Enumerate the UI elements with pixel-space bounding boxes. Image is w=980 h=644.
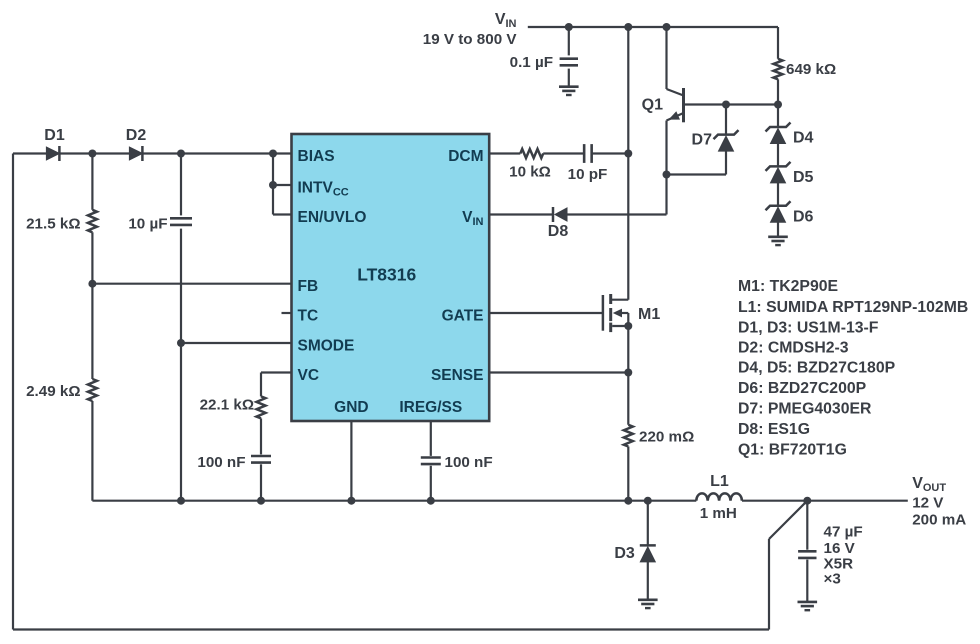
svg-text:Q1: BF720T1G: Q1: BF720T1G xyxy=(738,442,847,459)
svg-text:649 kΩ: 649 kΩ xyxy=(786,61,836,78)
resistor 649k xyxy=(774,59,783,80)
wire: 0.1uF to ground xyxy=(568,69,570,87)
svg-text:SENSE: SENSE xyxy=(431,367,484,384)
wire: D5-D6 link xyxy=(777,183,779,206)
svg-text:12 V: 12 V xyxy=(912,495,944,512)
junction: D2/10uF node xyxy=(177,150,185,158)
svg-text:0.1 µF: 0.1 µF xyxy=(510,54,553,71)
transistor Q1 xyxy=(667,27,684,215)
junction: top rail drain tap xyxy=(624,23,632,31)
junction: top rail Q1 collector tap xyxy=(663,23,671,31)
wire: D2 to BIAS pin xyxy=(142,152,291,154)
wire: D1 to node A xyxy=(59,152,92,154)
svg-text:D6: BZD27C200P: D6: BZD27C200P xyxy=(738,380,866,397)
junction: emitter/D7 node xyxy=(663,171,671,179)
svg-text:D5: D5 xyxy=(793,169,814,186)
wire: TC stub xyxy=(282,312,292,314)
svg-text:VC: VC xyxy=(298,367,320,384)
wire: drain vertical xyxy=(627,27,629,300)
svg-text:×3: ×3 xyxy=(824,571,841,588)
wire: return vertical to diagonal xyxy=(768,539,770,630)
svg-text:10 pF: 10 pF xyxy=(568,166,608,183)
junction: 10pF/drain node xyxy=(624,150,632,158)
svg-text:GATE: GATE xyxy=(442,307,484,324)
wire: VIN pin to D8 xyxy=(489,213,553,215)
svg-text:L1: SUMIDA RPT129NP-102MB: L1: SUMIDA RPT129NP-102MB xyxy=(738,299,968,316)
label VOUT xyxy=(912,475,966,529)
wire: D3 drop xyxy=(647,501,649,546)
wire: D4-D5 link xyxy=(777,144,779,167)
resistor 21.5k xyxy=(88,210,97,233)
wire: VC down to 22.1k xyxy=(260,373,262,397)
wire: DCM pin to 10k xyxy=(489,152,520,154)
resistor 10k xyxy=(520,149,543,158)
junction: 10uF column at ground line xyxy=(177,497,185,505)
svg-text:M1: TK2P90E: M1: TK2P90E xyxy=(738,278,838,295)
svg-text:2.49 kΩ: 2.49 kΩ xyxy=(26,383,80,400)
svg-text:16 V: 16 V xyxy=(824,540,856,557)
resistor 2.49k xyxy=(88,379,97,401)
svg-text:D8: ES1G: D8: ES1G xyxy=(738,421,810,438)
wire: VC pin wire xyxy=(261,371,292,373)
svg-text:100 nF: 100 nF xyxy=(445,454,493,471)
wire: 0.1uF drop xyxy=(568,27,570,55)
wire: return diagonal to output node xyxy=(769,501,807,539)
svg-text:BIAS: BIAS xyxy=(298,148,335,165)
wire: IREG cap to ground line xyxy=(430,466,432,501)
wire: 10pF to drain line xyxy=(592,152,629,154)
capacitor 0.1uF xyxy=(560,59,578,66)
diode D2 xyxy=(129,146,142,161)
junction: SENSE tap on source xyxy=(624,369,632,377)
wire: 21.5k bottom to FB node xyxy=(91,232,93,283)
svg-text:EN/UVLO: EN/UVLO xyxy=(298,209,367,226)
wire: GATE pin wire xyxy=(489,312,603,314)
junction: IREG column at ground line xyxy=(427,497,435,505)
wire: GND pin drop xyxy=(350,421,352,501)
ground D4-D6 chain xyxy=(768,237,788,245)
svg-text:GND: GND xyxy=(334,399,368,416)
wire: 10uF column bottom through SMODE to ground line xyxy=(180,229,182,501)
wire: 649k drop from top rail xyxy=(777,27,779,59)
svg-text:19 V to 800 V: 19 V to 800 V xyxy=(423,31,518,48)
wire: 47uF drop xyxy=(806,501,808,550)
svg-text:1 mH: 1 mH xyxy=(700,505,737,522)
svg-text:FB: FB xyxy=(298,278,319,295)
zener D4 xyxy=(766,123,791,144)
svg-text:D4, D5: BZD27C180P: D4, D5: BZD27C180P xyxy=(738,360,895,377)
zener D6 xyxy=(766,201,791,222)
wire: top V_IN rail xyxy=(528,26,778,28)
parts list xyxy=(738,278,968,459)
junction: D7 tap on base wire xyxy=(722,101,730,109)
resistor 22.1k xyxy=(257,396,266,418)
wire: 22.1k to 100nF xyxy=(260,418,262,454)
wire: EN/UVLO pin stub xyxy=(273,213,292,215)
wire: D1 anode from left rail xyxy=(13,152,46,154)
ground 47uF xyxy=(798,602,818,610)
svg-text:D7: D7 xyxy=(692,132,713,149)
svg-text:D1, D3: US1M-13-F: D1, D3: US1M-13-F xyxy=(738,320,879,337)
svg-text:D8: D8 xyxy=(548,223,569,240)
svg-text:L1: L1 xyxy=(710,473,729,490)
capacitor 100nF vc xyxy=(251,456,271,463)
svg-text:D7: PMEG4030ER: D7: PMEG4030ER xyxy=(738,401,872,418)
svg-text:D2: CMDSH2-3: D2: CMDSH2-3 xyxy=(738,340,849,357)
label 47uF block xyxy=(824,524,863,588)
junction: FB node xyxy=(88,280,96,288)
wire: 649k to Q1 base node xyxy=(777,79,779,127)
wire: EN/UVLO connector vertical xyxy=(272,154,274,215)
junction: BIAS/EN-UVLO tap xyxy=(269,150,277,158)
MOSFET M1 xyxy=(603,294,632,332)
wire: IREG/SS pin drop xyxy=(430,421,432,456)
junction: D1/21.5k node xyxy=(88,150,96,158)
svg-text:220 mΩ: 220 mΩ xyxy=(639,429,694,446)
svg-text:Q1: Q1 xyxy=(642,97,663,114)
wire: Q1 base wire xyxy=(684,103,779,105)
ground D3 xyxy=(638,600,658,608)
label VIN supply xyxy=(423,11,518,48)
wire: D8 to Q1 emitter column xyxy=(568,213,667,215)
wire: bottom return line xyxy=(13,628,769,630)
wire: FB pin wire xyxy=(92,283,291,285)
junction: top rail 0.1uF tap xyxy=(565,23,573,31)
svg-text:47 µF: 47 µF xyxy=(824,524,863,541)
junction: INTVCC tap xyxy=(269,181,277,189)
wire: 10uF column top xyxy=(180,154,182,216)
svg-text:200 mA: 200 mA xyxy=(912,512,966,529)
wire: output line after L1 xyxy=(742,500,908,502)
wire: D7 return to emitter column xyxy=(667,173,727,175)
wire: node A to D2 xyxy=(92,152,129,154)
wire: main ground/output line xyxy=(92,500,696,502)
wire: 2.49k bottom to ground line xyxy=(91,401,93,501)
wire: SENSE pin wire xyxy=(489,371,628,373)
svg-text:TC: TC xyxy=(298,307,319,324)
svg-text:D6: D6 xyxy=(793,209,814,226)
wire: 220m to ground line xyxy=(627,447,629,501)
zener D5 xyxy=(766,162,791,183)
svg-text:IREG/SS: IREG/SS xyxy=(399,399,462,416)
wire: INTVCC pin stub xyxy=(273,184,292,186)
svg-text:D3: D3 xyxy=(614,545,635,562)
wire: D7 anode down xyxy=(725,151,727,174)
svg-text:100 nF: 100 nF xyxy=(197,454,245,471)
wire: left rail from D1 line down to bottom return xyxy=(12,154,14,630)
wire: 100nF to ground line xyxy=(260,464,262,500)
op-amp U1 LT8316 regulator IC xyxy=(292,134,490,421)
wire: SMODE pin wire xyxy=(181,342,292,344)
junction: source column at output line xyxy=(624,497,632,505)
wire: D7 drop xyxy=(725,105,727,135)
svg-text:DCM: DCM xyxy=(448,148,483,165)
junction: base/zener node xyxy=(774,101,782,109)
capacitor 47uF xyxy=(798,551,816,558)
wire: 10k to 10pF xyxy=(543,152,584,154)
wire: 21.5k top segment xyxy=(91,154,93,210)
junction: GND pin at ground line xyxy=(347,497,355,505)
resistor 220m xyxy=(624,425,633,447)
wire: FB node down to 2.49k xyxy=(91,284,93,379)
ground 0.1uF xyxy=(559,87,579,95)
svg-text:21.5 kΩ: 21.5 kΩ xyxy=(26,216,80,233)
svg-text:22.1 kΩ: 22.1 kΩ xyxy=(200,397,254,414)
capacitor 100nF iregss xyxy=(421,458,441,465)
junction: output node xyxy=(803,497,811,505)
wire: D6 to ground xyxy=(777,222,779,237)
capacitor 10pF xyxy=(584,144,592,163)
diode D1 xyxy=(46,146,59,161)
svg-text:D4: D4 xyxy=(793,130,814,147)
junction: SMODE tap xyxy=(177,339,185,347)
inductor L1 xyxy=(696,493,742,500)
junction: VC column at ground line xyxy=(257,497,265,505)
wire: 47uF to ground xyxy=(806,560,808,602)
junction: D3 at output line xyxy=(644,497,652,505)
diode D3 xyxy=(640,545,656,562)
capacitor 10uF xyxy=(170,218,192,225)
wire: source down to 220m xyxy=(627,326,629,425)
svg-text:D2: D2 xyxy=(126,127,147,144)
diode D8 xyxy=(553,207,567,222)
svg-text:SMODE: SMODE xyxy=(298,337,355,354)
svg-text:10 µF: 10 µF xyxy=(128,216,167,233)
wire: D3 anode to ground xyxy=(647,562,649,600)
svg-text:LT8316: LT8316 xyxy=(357,264,416,284)
svg-text:M1: M1 xyxy=(638,306,660,323)
svg-text:D1: D1 xyxy=(44,127,65,144)
svg-text:10 kΩ: 10 kΩ xyxy=(509,164,551,181)
zener D7 xyxy=(714,130,739,151)
